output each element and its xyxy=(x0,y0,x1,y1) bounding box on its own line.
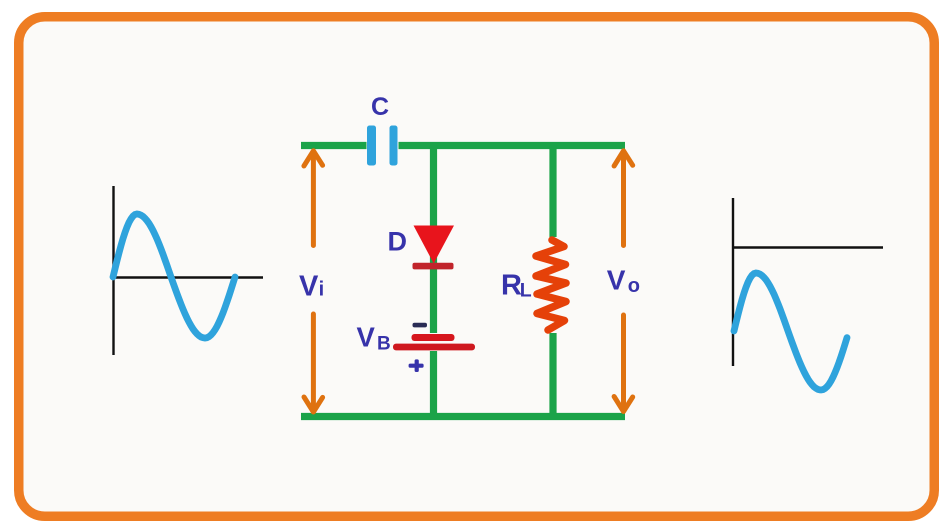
svg-text:B: B xyxy=(377,334,391,355)
svg-text:C: C xyxy=(371,93,389,121)
svg-text:V: V xyxy=(357,322,376,353)
svg-text:L: L xyxy=(520,280,532,302)
svg-text:i: i xyxy=(319,279,325,301)
svg-text:V: V xyxy=(299,271,319,303)
svg-text:o: o xyxy=(628,275,640,297)
svg-text:V: V xyxy=(607,265,626,296)
svg-text:D: D xyxy=(388,227,408,257)
